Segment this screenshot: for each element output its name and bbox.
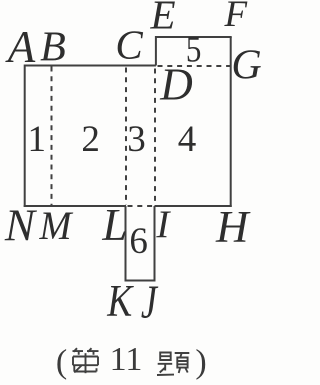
svg-text:I: I xyxy=(155,203,171,246)
svg-text:): ) xyxy=(195,344,206,381)
svg-text:3: 3 xyxy=(127,119,146,160)
svg-text:E: E xyxy=(149,0,175,38)
svg-text:J: J xyxy=(141,276,159,329)
svg-text:N: N xyxy=(4,200,38,250)
svg-text:G: G xyxy=(231,43,261,89)
svg-text:C: C xyxy=(115,22,143,68)
svg-text:2: 2 xyxy=(81,119,100,160)
svg-text:6: 6 xyxy=(129,221,148,262)
svg-text:H: H xyxy=(215,202,251,252)
svg-text:A: A xyxy=(5,22,36,72)
svg-text:L: L xyxy=(101,200,127,250)
svg-text:5: 5 xyxy=(186,30,202,71)
svg-text:F: F xyxy=(223,0,247,35)
svg-text:B: B xyxy=(40,25,66,71)
svg-text:1: 1 xyxy=(27,119,46,160)
svg-text:M: M xyxy=(39,203,75,248)
svg-text:(: ( xyxy=(56,344,67,381)
svg-text:K: K xyxy=(106,276,133,326)
svg-text:11: 11 xyxy=(110,341,143,378)
svg-text:4: 4 xyxy=(178,119,197,160)
